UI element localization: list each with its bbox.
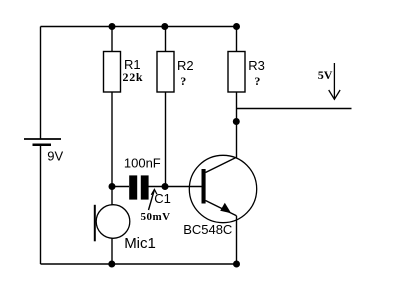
wire output rail xyxy=(237,108,352,110)
microphone Mic1 plate xyxy=(94,205,96,242)
wire left vertical lower xyxy=(40,145,42,264)
5V arrow shaft xyxy=(333,63,335,99)
svg-text:Mic1: Mic1 xyxy=(124,235,156,252)
svg-text:BC548C: BC548C xyxy=(183,222,232,237)
svg-text:?: ? xyxy=(254,74,260,88)
5V arrow head xyxy=(329,90,340,99)
microphone Mic1 circle xyxy=(96,205,130,239)
node dot collector branch xyxy=(233,118,240,125)
node dot top R2 xyxy=(161,23,168,30)
svg-text:50mV: 50mV xyxy=(141,211,171,223)
transistor Q1 emitter slant xyxy=(206,201,237,216)
node dot top R1 xyxy=(109,23,116,30)
wire node to capacitor xyxy=(112,186,129,188)
transistor Q1 envelope circle xyxy=(189,155,256,222)
resistor R2 body xyxy=(157,52,174,93)
wire bottom rail xyxy=(41,263,237,265)
capacitor C1 left plate xyxy=(129,175,137,199)
node dot bottom emitter xyxy=(233,261,240,268)
svg-text:100nF: 100nF xyxy=(124,155,161,170)
transistor Q1 collector slant xyxy=(206,157,238,173)
wire emitter lead down xyxy=(236,216,238,264)
wire R3 bottom lead to collector xyxy=(236,92,238,158)
svg-text:C1: C1 xyxy=(154,191,171,206)
battery B1 positive plate xyxy=(24,138,61,140)
node dot top R3 xyxy=(233,23,240,30)
wire R1 top lead xyxy=(111,27,113,52)
node dot base node xyxy=(162,183,169,190)
transistor Q1 base bar xyxy=(202,169,206,204)
svg-text:R3: R3 xyxy=(248,58,265,73)
wire left vertical upper xyxy=(40,27,42,140)
svg-text:22k: 22k xyxy=(123,70,144,84)
wire R2 bottom lead xyxy=(165,92,167,187)
node dot bottom mic xyxy=(108,261,115,268)
wire R3 top lead xyxy=(236,27,238,52)
battery B1 negative plate xyxy=(33,143,52,146)
resistor R1 body xyxy=(104,52,121,93)
svg-text:9V: 9V xyxy=(47,149,63,164)
wire R1 bottom lead down to node xyxy=(111,92,113,205)
wire Mic1 bottom lead xyxy=(111,238,113,264)
wire R2 top lead xyxy=(165,27,167,52)
node dot cap input xyxy=(109,183,116,190)
50mV probe arrow shaft xyxy=(149,190,155,210)
capacitor C1 right plate xyxy=(141,175,149,199)
wire top rail xyxy=(41,26,237,28)
wire capacitor to base node xyxy=(149,186,202,188)
svg-text:R2: R2 xyxy=(177,58,194,73)
50mV probe arrow head xyxy=(151,189,157,194)
transistor Q1 emitter arrowhead xyxy=(220,203,231,214)
resistor R3 body xyxy=(228,52,245,93)
svg-text:5V: 5V xyxy=(318,68,333,82)
svg-text:?: ? xyxy=(180,74,186,88)
